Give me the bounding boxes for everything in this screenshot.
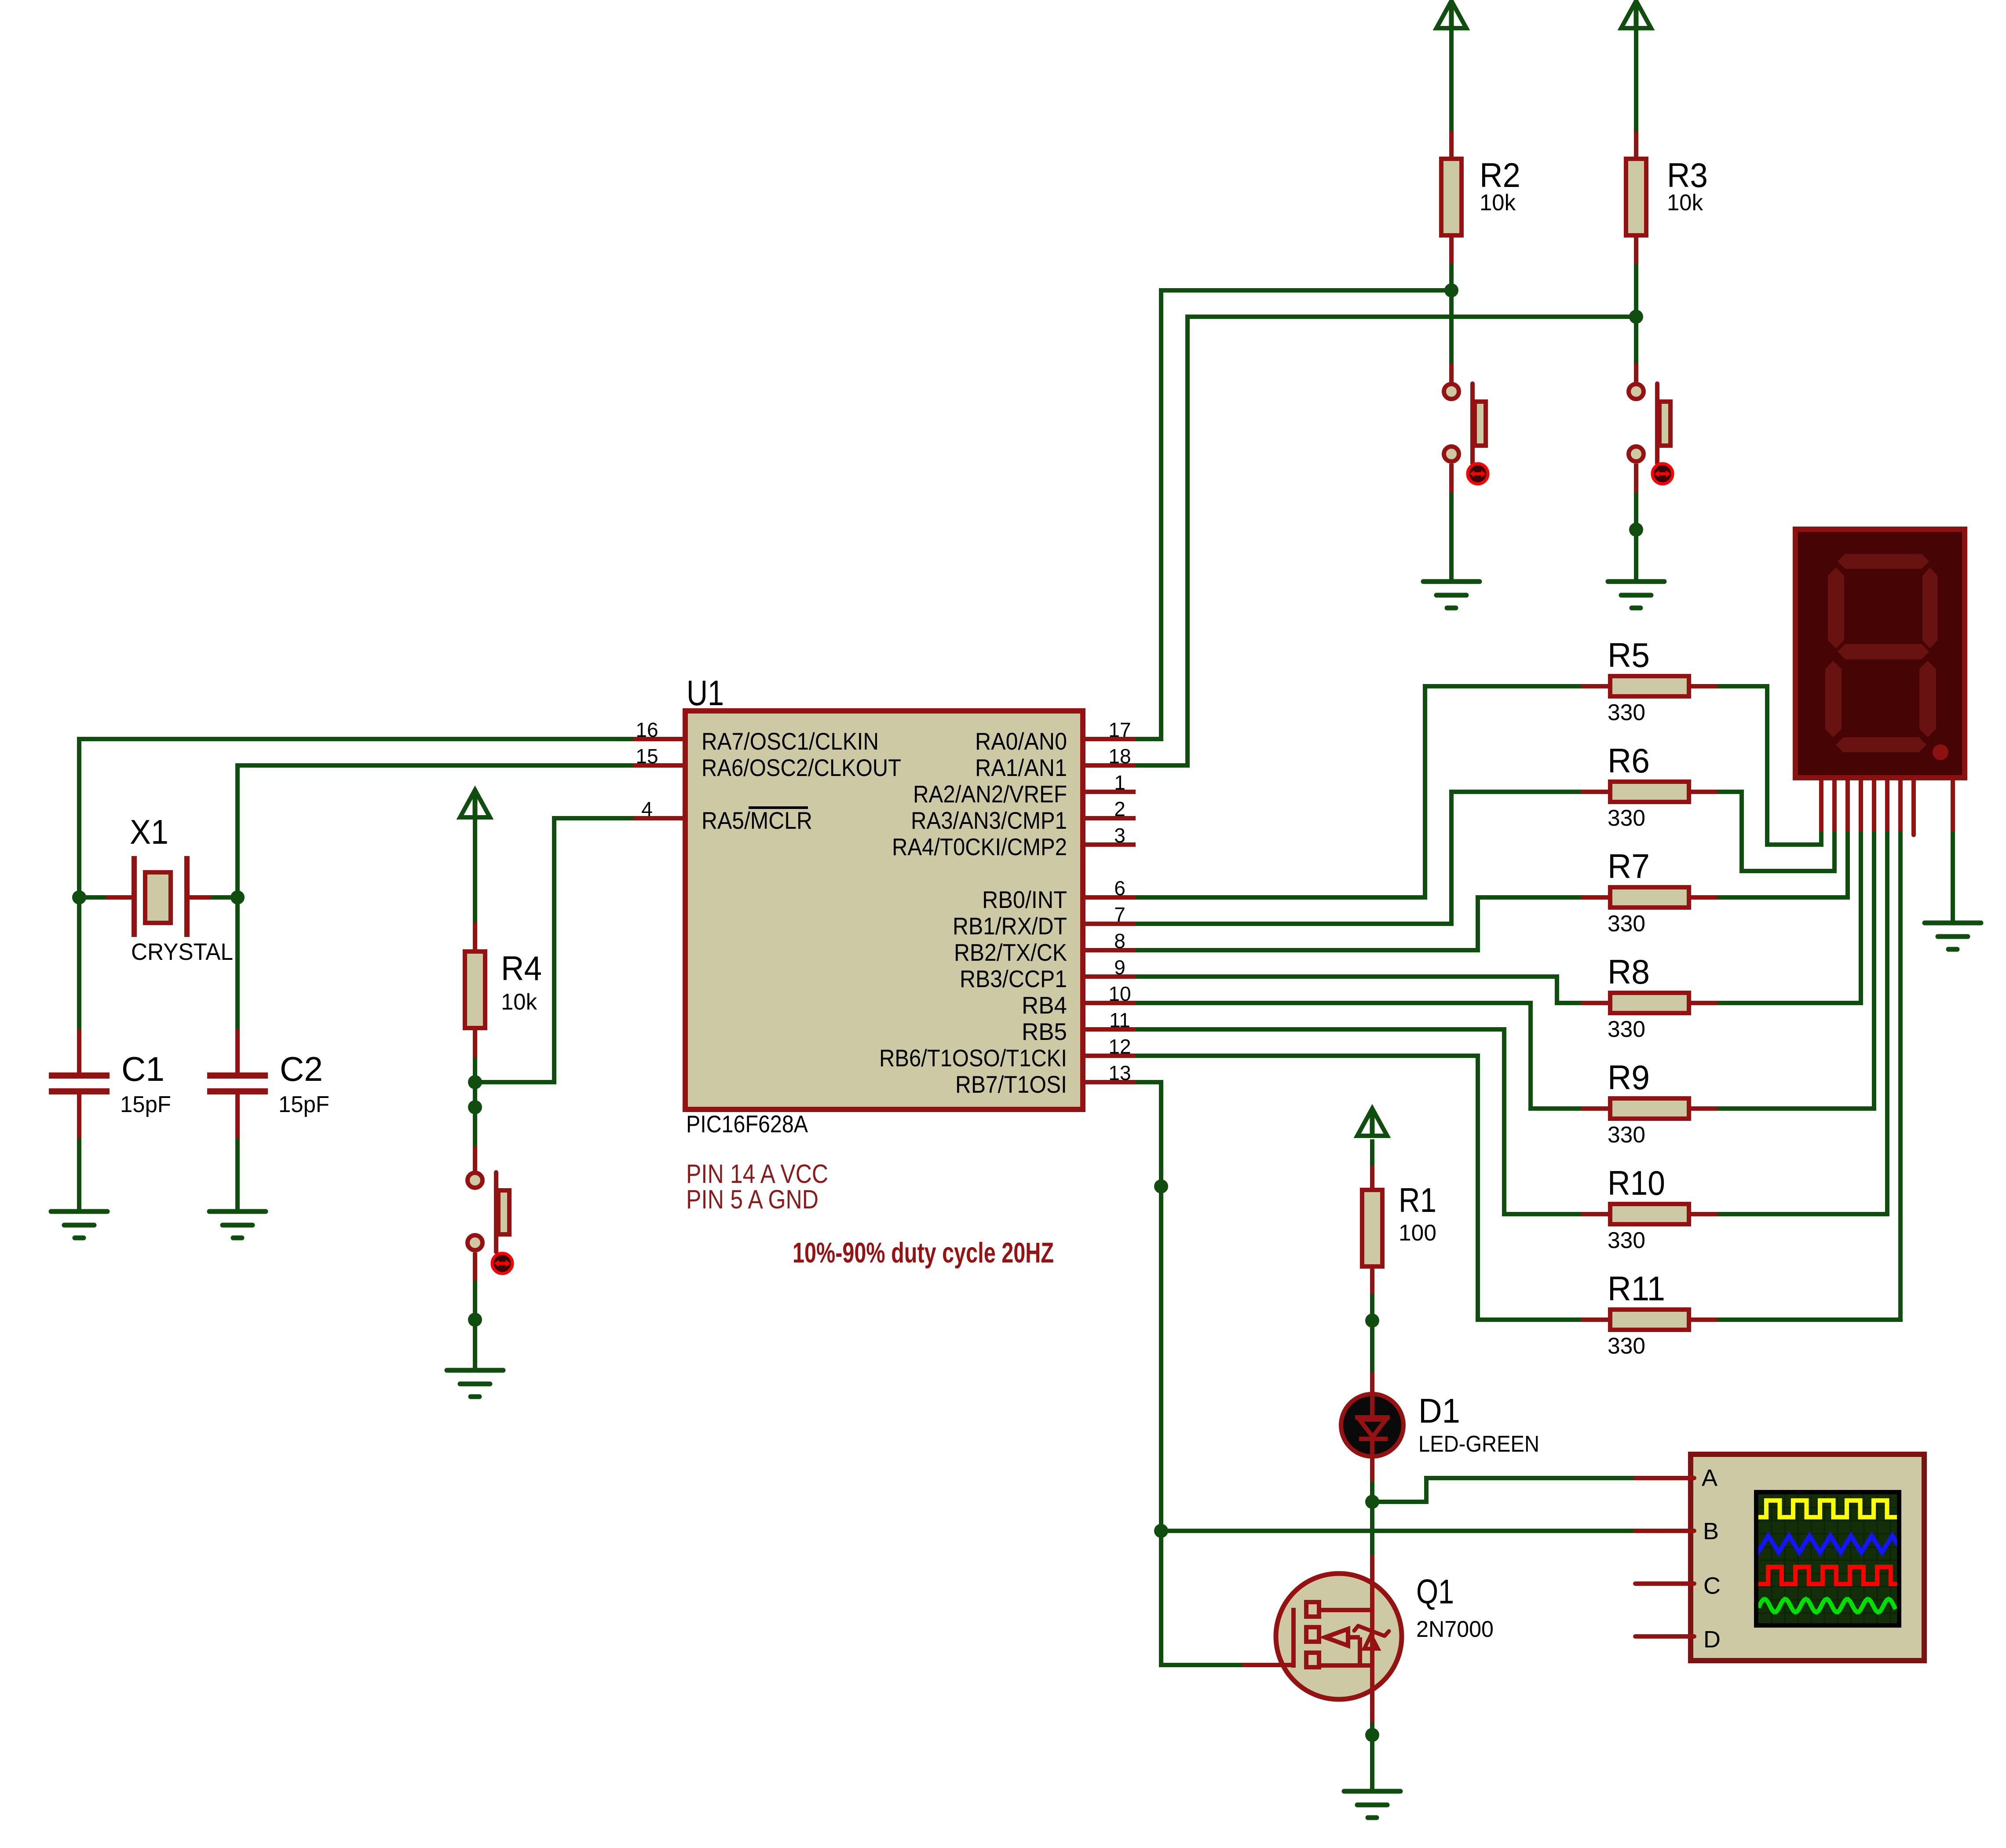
svg-text:R3: R3 bbox=[1667, 156, 1708, 194]
svg-text:15: 15 bbox=[636, 745, 658, 768]
wire R11 to display pin g bbox=[1717, 831, 1900, 1320]
node X1 left bbox=[72, 890, 86, 904]
node X1 right bbox=[230, 890, 245, 904]
svg-text:D: D bbox=[1703, 1626, 1721, 1653]
svg-text:CRYSTAL: CRYSTAL bbox=[131, 939, 233, 965]
wire VCC to R3 bbox=[1634, 28, 1638, 131]
wire pin6 to R5 bbox=[1136, 686, 1581, 897]
svg-text:PIC16F628A: PIC16F628A bbox=[686, 1110, 808, 1138]
wire pin18 to R3 node bbox=[1136, 317, 1636, 765]
U1 pin 18 RA1/AN1 bbox=[975, 745, 1136, 781]
U1 pin 7 RB1/RX/DT bbox=[953, 903, 1136, 940]
label R9 bbox=[1608, 1058, 1650, 1097]
wire R8 to display pin d bbox=[1717, 831, 1861, 1003]
capacitor C1 bbox=[49, 1029, 110, 1138]
node gate wire join bbox=[1154, 1179, 1168, 1193]
U1 pin 9 RB3/CCP1 bbox=[960, 956, 1136, 992]
svg-text:9: 9 bbox=[1114, 956, 1125, 979]
resistor R2 bbox=[1441, 131, 1462, 264]
resistor R5 bbox=[1581, 676, 1717, 696]
svg-text:13: 13 bbox=[1108, 1061, 1131, 1084]
svg-text:X1: X1 bbox=[130, 812, 168, 851]
label R2 value 10k bbox=[1480, 190, 1516, 216]
label R8 bbox=[1608, 952, 1650, 991]
wire scope B bbox=[1161, 1529, 1636, 1533]
wire pin10 to R9 bbox=[1136, 1003, 1581, 1109]
wire X1 left node to C1 bbox=[77, 897, 81, 1029]
wire pin12 to R11 bbox=[1136, 1056, 1581, 1320]
svg-text:RA4/T0CKI/CMP2: RA4/T0CKI/CMP2 bbox=[892, 833, 1067, 860]
ground Q1 bbox=[1344, 1791, 1400, 1818]
U1 pin 11 RB5 bbox=[1022, 1009, 1136, 1045]
U1 pin 12 RB6/T1OSO/T1CKI bbox=[879, 1035, 1136, 1072]
svg-text:330: 330 bbox=[1608, 805, 1645, 831]
svg-text:C: C bbox=[1703, 1573, 1721, 1599]
wire pin17 to R2 node bbox=[1136, 290, 1451, 739]
ground C1 bbox=[51, 1211, 107, 1238]
svg-text:RA3/AN3/CMP1: RA3/AN3/CMP1 bbox=[911, 807, 1067, 834]
power VCC R4 bbox=[460, 790, 490, 817]
svg-text:RB6/T1OSO/T1CKI: RB6/T1OSO/T1CKI bbox=[879, 1044, 1067, 1072]
svg-text:330: 330 bbox=[1608, 700, 1645, 725]
svg-text:R6: R6 bbox=[1608, 741, 1650, 780]
label R4 bbox=[501, 949, 542, 988]
label R7 bbox=[1608, 847, 1650, 886]
svg-text:RA6/OSC2/CLKOUT: RA6/OSC2/CLKOUT bbox=[702, 754, 901, 781]
crystal X1 bbox=[106, 856, 211, 937]
svg-text:RA2/AN2/VREF: RA2/AN2/VREF bbox=[913, 780, 1067, 808]
wire C2 to ground bbox=[235, 1138, 240, 1211]
svg-text:R11: R11 bbox=[1608, 1269, 1665, 1308]
label R6 bbox=[1608, 741, 1650, 780]
oscilloscope pin D bbox=[1635, 1626, 1721, 1653]
power VCC R3 bbox=[1621, 1, 1651, 28]
label C2 bbox=[280, 1050, 323, 1088]
pushbutton R4 branch bbox=[468, 1146, 509, 1281]
svg-text:15pF: 15pF bbox=[120, 1092, 171, 1117]
svg-text:330: 330 bbox=[1608, 1333, 1645, 1359]
svg-text:PIN 5 A GND: PIN 5 A GND bbox=[686, 1185, 818, 1214]
wire VCC to R1 bbox=[1370, 1139, 1374, 1166]
U1 pin 8 RB2/TX/CK bbox=[954, 929, 1136, 966]
wire VCC to R4 bbox=[473, 817, 477, 922]
oscilloscope pin A bbox=[1635, 1465, 1717, 1491]
label R8 value 330 bbox=[1608, 1017, 1645, 1042]
svg-text:R9: R9 bbox=[1608, 1058, 1650, 1097]
ground R2 branch bbox=[1423, 582, 1480, 608]
svg-text:RB3/CCP1: RB3/CCP1 bbox=[960, 965, 1067, 992]
oscilloscope body bbox=[1691, 1454, 1924, 1661]
pushbutton R3 branch bbox=[1629, 363, 1670, 492]
resistor R1 bbox=[1362, 1166, 1382, 1294]
svg-text:RB1/RX/DT: RB1/RX/DT bbox=[953, 912, 1067, 940]
label C2 value 15pF bbox=[278, 1092, 329, 1117]
U1 pin 15 RA6/OSC2/CLKOUT bbox=[633, 745, 901, 781]
svg-text:R2: R2 bbox=[1480, 156, 1520, 194]
U1 pin 4 RA5/MCLR bbox=[633, 798, 812, 834]
svg-text:R5: R5 bbox=[1608, 636, 1650, 674]
svg-text:16: 16 bbox=[636, 718, 658, 741]
svg-text:PIN 14 A VCC: PIN 14 A VCC bbox=[686, 1159, 828, 1189]
wire pin13 to Q1 gate bbox=[1136, 1082, 1242, 1665]
wire R6 to display pin b bbox=[1717, 792, 1834, 871]
svg-text:R4: R4 bbox=[501, 949, 542, 988]
oscilloscope screen bbox=[1756, 1492, 1899, 1625]
svg-text:11: 11 bbox=[1109, 1009, 1130, 1032]
wire X1 right lead bbox=[211, 895, 238, 900]
svg-text:Q1: Q1 bbox=[1416, 1572, 1454, 1611]
label R11 bbox=[1608, 1269, 1665, 1308]
svg-text:330: 330 bbox=[1608, 1017, 1645, 1042]
svg-text:12: 12 bbox=[1108, 1035, 1131, 1058]
power VCC R1 bbox=[1357, 1109, 1387, 1136]
U1 pin 3 RA4/T0CKI/CMP2 bbox=[892, 824, 1136, 860]
label Q1 value 2N7000 bbox=[1416, 1617, 1494, 1642]
label R10 value 330 bbox=[1608, 1228, 1645, 1253]
svg-text:LED-GREEN: LED-GREEN bbox=[1418, 1431, 1539, 1457]
wire R4 to button bbox=[473, 1058, 477, 1146]
wire R9 to display pin e bbox=[1717, 831, 1874, 1109]
wire R2 to node bbox=[1449, 264, 1454, 290]
label D1 value LED-GREEN bbox=[1418, 1431, 1539, 1457]
note duty cycle bbox=[793, 1237, 1054, 1269]
power VCC R2 bbox=[1436, 1, 1466, 28]
svg-text:RB0/INT: RB0/INT bbox=[982, 886, 1067, 913]
wire node to button R2 bbox=[1449, 290, 1454, 363]
LED D1 bbox=[1341, 1372, 1403, 1482]
U1 pin 2 RA3/AN3/CMP1 bbox=[911, 798, 1136, 834]
svg-text:7: 7 bbox=[1114, 903, 1125, 926]
svg-text:RA1/AN1: RA1/AN1 bbox=[975, 754, 1067, 781]
label Q1 bbox=[1416, 1572, 1454, 1611]
wire button to ground R3 bbox=[1634, 492, 1638, 581]
U1 pin 17 RA0/AN0 bbox=[975, 718, 1136, 755]
resistor R8 bbox=[1581, 993, 1717, 1013]
wire Q1 to ground bbox=[1370, 1722, 1374, 1790]
svg-text:3: 3 bbox=[1114, 824, 1125, 847]
oscilloscope waveforms bbox=[1737, 1500, 1913, 1612]
pushbutton R2 branch bbox=[1444, 363, 1486, 492]
label D1 bbox=[1418, 1391, 1460, 1430]
svg-text:10: 10 bbox=[1108, 982, 1131, 1005]
label CRYSTAL bbox=[131, 939, 233, 965]
resistor R6 bbox=[1581, 782, 1717, 802]
svg-text:RA7/OSC1/CLKIN: RA7/OSC1/CLKIN bbox=[702, 728, 879, 755]
wire Q1 source stub bbox=[1370, 1701, 1374, 1722]
wire node to button R3 bbox=[1634, 317, 1638, 363]
wire pin7 to R6 bbox=[1136, 792, 1581, 924]
resistor R4 bbox=[465, 922, 485, 1058]
node D1 cathode junction bbox=[1365, 1495, 1379, 1509]
oscilloscope pin B bbox=[1635, 1518, 1719, 1544]
label R5 bbox=[1608, 636, 1650, 674]
wire R10 to display pin f bbox=[1717, 831, 1887, 1214]
ground R4 branch bbox=[447, 1370, 503, 1397]
button marker R2 bbox=[1468, 464, 1488, 484]
svg-text:RA5/MCLR: RA5/MCLR bbox=[702, 807, 812, 834]
svg-text:RB4: RB4 bbox=[1022, 992, 1067, 1019]
svg-text:C2: C2 bbox=[280, 1050, 323, 1088]
wire display common to ground bbox=[1951, 831, 1955, 922]
svg-text:1: 1 bbox=[1114, 771, 1125, 794]
svg-text:6: 6 bbox=[1114, 877, 1125, 900]
wire pin4 to R4 node bbox=[475, 818, 633, 1082]
wire D1 to Q1 drain bbox=[1370, 1482, 1374, 1555]
svg-text:10%-90% duty cycle 20HZ: 10%-90% duty cycle 20HZ bbox=[793, 1237, 1054, 1269]
svg-text:B: B bbox=[1703, 1518, 1719, 1544]
svg-text:330: 330 bbox=[1608, 911, 1645, 937]
svg-text:100: 100 bbox=[1399, 1220, 1436, 1246]
svg-text:330: 330 bbox=[1608, 1228, 1645, 1253]
svg-text:RB5: RB5 bbox=[1022, 1018, 1067, 1045]
label R1 value 100 bbox=[1399, 1220, 1436, 1246]
ground C2 bbox=[209, 1211, 266, 1238]
wire button to ground R4 bbox=[473, 1281, 477, 1369]
node scope B junction bbox=[1154, 1524, 1168, 1538]
svg-text:330: 330 bbox=[1608, 1122, 1645, 1148]
svg-text:RB2/TX/CK: RB2/TX/CK bbox=[954, 939, 1067, 966]
svg-text:C1: C1 bbox=[121, 1050, 164, 1088]
wire X1 right node to C2 bbox=[235, 897, 240, 1029]
svg-text:R7: R7 bbox=[1608, 847, 1650, 886]
svg-text:10k: 10k bbox=[1480, 190, 1516, 216]
svg-text:2: 2 bbox=[1114, 798, 1125, 820]
label R4 value 10k bbox=[501, 989, 537, 1015]
wire pin8 to R7 bbox=[1136, 897, 1581, 950]
label R3 value 10k bbox=[1667, 190, 1703, 216]
7-segment display bbox=[1795, 529, 1965, 778]
oscilloscope pin C bbox=[1635, 1573, 1721, 1599]
label C1 bbox=[121, 1050, 164, 1088]
wire C1 to ground bbox=[77, 1138, 81, 1211]
label R1 bbox=[1399, 1181, 1436, 1219]
svg-text:R1: R1 bbox=[1399, 1181, 1436, 1219]
node R4 junction bbox=[468, 1075, 482, 1089]
wire scope A bbox=[1372, 1478, 1636, 1502]
note PIN 14 A VCC bbox=[686, 1159, 828, 1189]
svg-text:R8: R8 bbox=[1608, 952, 1650, 991]
resistor R10 bbox=[1581, 1204, 1717, 1224]
wire pin9 to R8 bbox=[1136, 977, 1581, 1003]
U1 pin 16 RA7/OSC1/CLKIN bbox=[633, 718, 879, 755]
label R3 bbox=[1667, 156, 1708, 194]
button marker R3 bbox=[1652, 464, 1673, 484]
IC U1 PIC16F628A body bbox=[685, 711, 1083, 1109]
7-segment display pins bbox=[1821, 780, 1953, 835]
label C1 value 15pF bbox=[120, 1092, 171, 1117]
label R2 bbox=[1480, 156, 1520, 194]
svg-text:D1: D1 bbox=[1418, 1391, 1460, 1430]
U1 pin 13 RB7/T1OSI bbox=[955, 1061, 1136, 1098]
wire R5 to display pin a bbox=[1717, 686, 1821, 845]
node R2 button junction bbox=[1444, 283, 1458, 297]
resistor R9 bbox=[1581, 1098, 1717, 1119]
resistor R11 bbox=[1581, 1310, 1717, 1330]
svg-text:10k: 10k bbox=[1667, 190, 1703, 216]
wire R3 to node bbox=[1634, 264, 1638, 317]
ground R3 branch bbox=[1608, 582, 1664, 608]
svg-text:RB7/T1OSI: RB7/T1OSI bbox=[955, 1071, 1067, 1098]
note PIN 5 A GND bbox=[686, 1185, 818, 1214]
wire X1 left lead bbox=[79, 895, 106, 900]
label R10 bbox=[1608, 1164, 1665, 1202]
U1 pin 6 RB0/INT bbox=[982, 877, 1136, 913]
label R6 value 330 bbox=[1608, 805, 1645, 831]
label PIC16F628A bbox=[686, 1110, 808, 1138]
label X1 bbox=[130, 812, 168, 851]
label R5 value 330 bbox=[1608, 700, 1645, 725]
node R4 ground join bbox=[468, 1313, 482, 1327]
node R3 button junction bbox=[1629, 310, 1643, 324]
ground display bbox=[1925, 923, 1981, 949]
wire button to ground R2 bbox=[1449, 492, 1454, 581]
capacitor C2 bbox=[207, 1029, 268, 1138]
wire R7 to display pin c bbox=[1717, 831, 1848, 897]
wire pin15 to X1 right node bbox=[238, 765, 633, 897]
svg-text:17: 17 bbox=[1108, 718, 1131, 741]
svg-text:18: 18 bbox=[1108, 745, 1131, 768]
svg-text:8: 8 bbox=[1114, 929, 1125, 952]
svg-text:RA0/AN0: RA0/AN0 bbox=[975, 728, 1067, 755]
svg-text:4: 4 bbox=[641, 798, 653, 820]
svg-text:2N7000: 2N7000 bbox=[1416, 1617, 1494, 1642]
label R11 value 330 bbox=[1608, 1333, 1645, 1359]
transistor Q1 2N7000 bbox=[1242, 1555, 1402, 1701]
label R9 value 330 bbox=[1608, 1122, 1645, 1148]
resistor R7 bbox=[1581, 887, 1717, 908]
node R1 wire join bbox=[1365, 1314, 1379, 1328]
svg-text:15pF: 15pF bbox=[278, 1092, 329, 1117]
U1 pin 1 RA2/AN2/VREF bbox=[913, 771, 1136, 808]
node Q1 ground join bbox=[1365, 1728, 1379, 1742]
svg-text:R10: R10 bbox=[1608, 1164, 1665, 1202]
wire VCC to R2 bbox=[1449, 28, 1454, 131]
button marker R4 bbox=[492, 1253, 512, 1273]
label R7 value 330 bbox=[1608, 911, 1645, 937]
U1 pin 10 RB4 bbox=[1022, 982, 1136, 1019]
wire pin11 to R10 bbox=[1136, 1029, 1581, 1214]
svg-text:10k: 10k bbox=[501, 989, 537, 1015]
label U1 bbox=[687, 673, 724, 713]
node R4 wire join bbox=[468, 1100, 482, 1114]
svg-text:U1: U1 bbox=[687, 673, 724, 713]
wire pin16 to X1 left node bbox=[79, 739, 633, 897]
svg-text:A: A bbox=[1702, 1465, 1717, 1491]
wire R1 to D1 bbox=[1370, 1294, 1374, 1372]
resistor R3 bbox=[1626, 131, 1646, 264]
node R3 ground join bbox=[1629, 523, 1643, 537]
